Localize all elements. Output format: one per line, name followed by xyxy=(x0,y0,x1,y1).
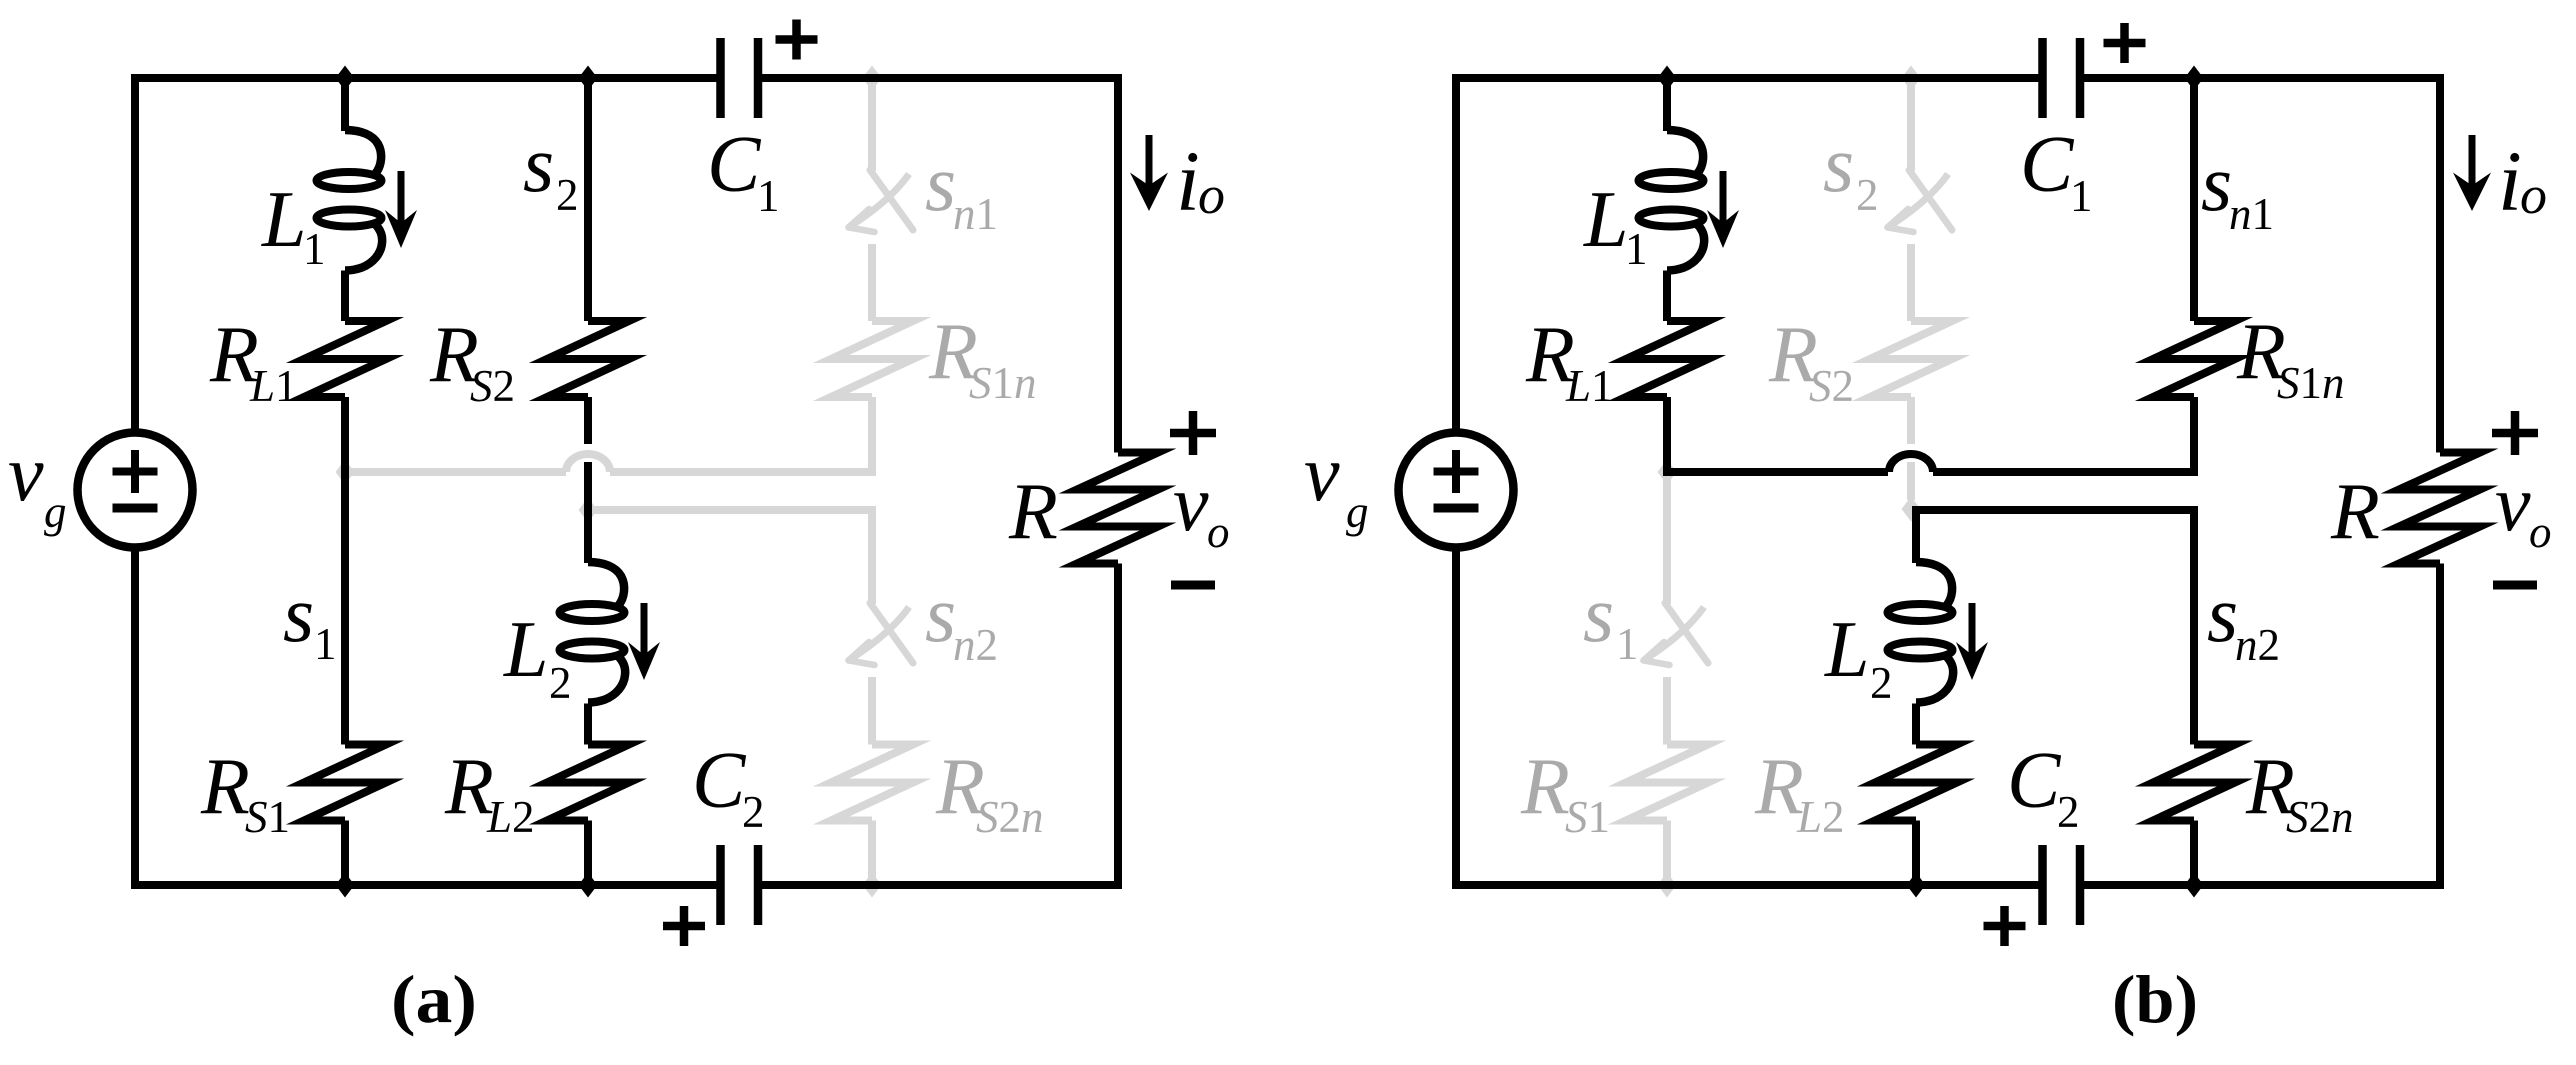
svg-text:L: L xyxy=(1583,176,1629,264)
svg-text:v: v xyxy=(8,430,44,518)
svg-text:1: 1 xyxy=(303,224,326,274)
svg-text:L: L xyxy=(1824,606,1870,694)
svg-text:s: s xyxy=(523,121,554,209)
svg-text:s: s xyxy=(1583,571,1614,659)
svg-text:2: 2 xyxy=(1870,658,1893,708)
svg-text:S2: S2 xyxy=(1809,361,1854,411)
svg-text:v: v xyxy=(2495,460,2531,548)
svg-text:g: g xyxy=(44,487,67,537)
svg-text:S1n: S1n xyxy=(969,358,1037,408)
svg-text:s: s xyxy=(925,140,956,228)
svg-text:v: v xyxy=(1304,430,1340,518)
svg-text:S2n: S2n xyxy=(2286,792,2354,842)
svg-text:1: 1 xyxy=(1625,224,1648,274)
svg-text:L: L xyxy=(503,606,549,694)
svg-text:2: 2 xyxy=(742,787,765,837)
svg-text:R: R xyxy=(200,743,250,831)
svg-text:C: C xyxy=(2007,737,2062,825)
svg-text:2: 2 xyxy=(556,170,579,220)
svg-text:v: v xyxy=(1173,460,1209,548)
svg-text:1: 1 xyxy=(314,619,337,669)
svg-text:(b): (b) xyxy=(2112,961,2198,1037)
svg-text:o: o xyxy=(1207,507,1230,557)
svg-text:C: C xyxy=(2020,121,2075,209)
svg-text:s: s xyxy=(1823,121,1854,209)
svg-text:o: o xyxy=(1198,165,1225,225)
svg-text:2: 2 xyxy=(549,658,572,708)
svg-text:L2: L2 xyxy=(486,792,535,842)
svg-text:s: s xyxy=(283,571,314,659)
svg-text:S1n: S1n xyxy=(2277,358,2345,408)
svg-text:S1: S1 xyxy=(245,792,290,842)
svg-text:i: i xyxy=(2498,133,2522,229)
svg-text:R: R xyxy=(1520,743,1570,831)
svg-text:s: s xyxy=(925,571,956,659)
svg-text:R: R xyxy=(2330,468,2380,556)
svg-text:2: 2 xyxy=(1856,170,1879,220)
svg-text:(a): (a) xyxy=(391,961,477,1037)
svg-text:g: g xyxy=(1346,487,1369,537)
svg-text:1: 1 xyxy=(1616,619,1639,669)
svg-text:o: o xyxy=(2520,165,2547,225)
svg-text:n2: n2 xyxy=(2235,620,2280,670)
svg-text:n2: n2 xyxy=(953,620,998,670)
svg-text:S1: S1 xyxy=(1565,792,1610,842)
svg-text:i: i xyxy=(1176,133,1200,229)
svg-text:1: 1 xyxy=(2070,171,2093,221)
svg-text:o: o xyxy=(2529,507,2552,557)
svg-text:n1: n1 xyxy=(2229,189,2274,239)
svg-text:2: 2 xyxy=(2057,787,2080,837)
svg-text:s: s xyxy=(2201,140,2232,228)
svg-text:n1: n1 xyxy=(953,189,998,239)
svg-text:S2: S2 xyxy=(470,361,515,411)
svg-text:L2: L2 xyxy=(1796,792,1845,842)
svg-text:L1: L1 xyxy=(249,361,298,411)
svg-text:s: s xyxy=(2207,571,2238,659)
svg-text:1: 1 xyxy=(757,171,780,221)
svg-text:L: L xyxy=(261,176,307,264)
svg-text:R: R xyxy=(1008,468,1058,556)
svg-text:L1: L1 xyxy=(1565,361,1614,411)
svg-text:C: C xyxy=(692,737,747,825)
svg-text:C: C xyxy=(707,121,762,209)
svg-text:S2n: S2n xyxy=(976,792,1044,842)
